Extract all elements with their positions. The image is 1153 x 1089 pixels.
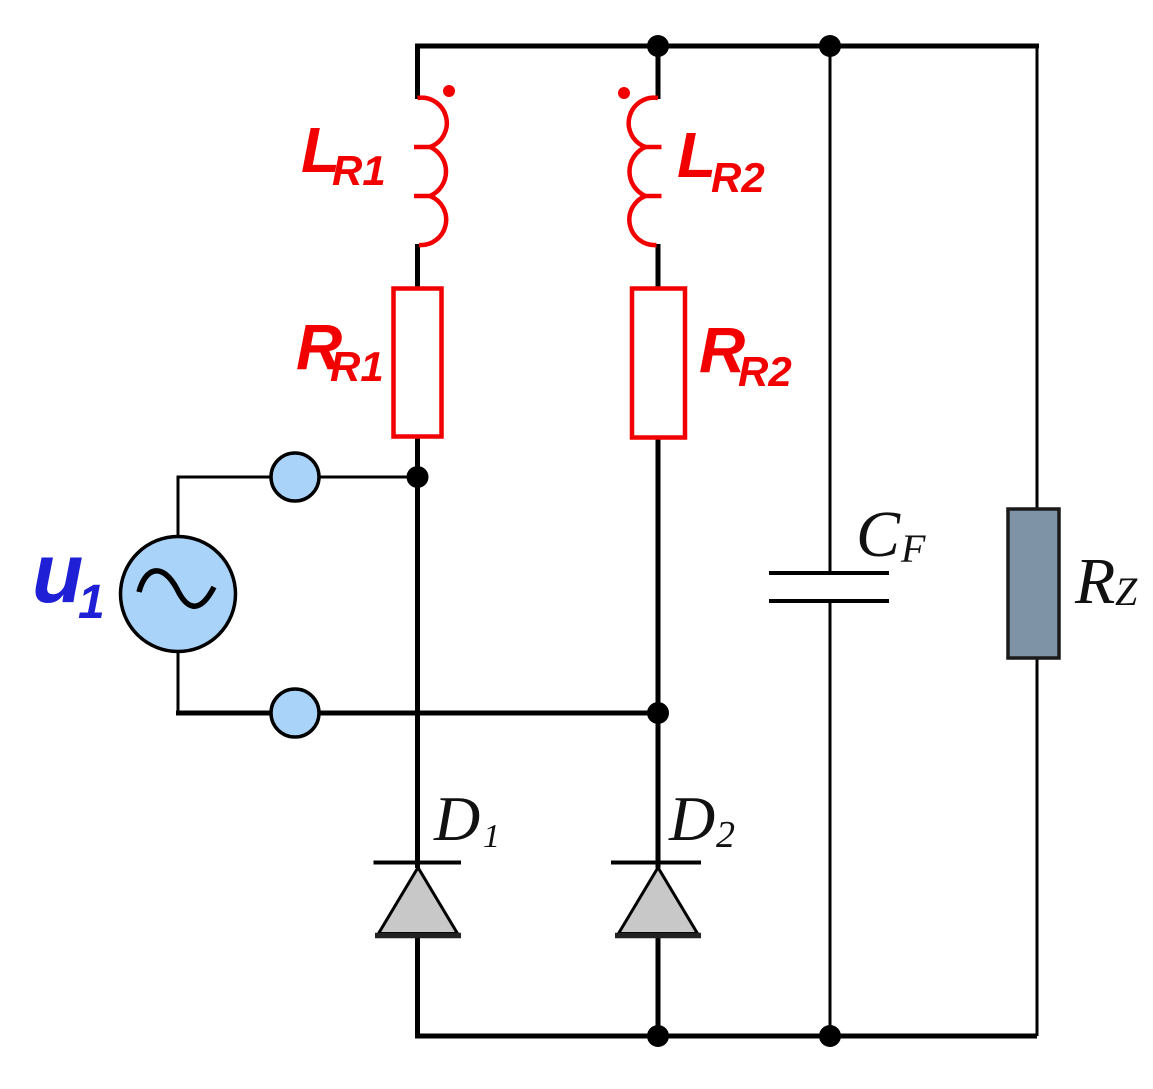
svg-text:1: 1	[78, 576, 105, 629]
svg-text:F: F	[900, 526, 926, 571]
capacitor CF plates	[769, 573, 889, 601]
svg-text:Z: Z	[1115, 569, 1138, 614]
inductor LR1	[414, 98, 447, 245]
svg-text:R1: R1	[332, 147, 386, 194]
svg-text:C: C	[856, 498, 901, 571]
wire bottom rail	[415, 1034, 1037, 1039]
resistor RZ	[1008, 509, 1059, 658]
svg-text:D: D	[668, 783, 715, 854]
diode D2	[611, 861, 701, 865]
node B junction dot	[647, 702, 669, 724]
resistor RR1	[394, 289, 442, 437]
polarity dot LR2	[618, 87, 630, 99]
node A junction dot	[407, 466, 429, 488]
resistor RR2	[632, 289, 685, 438]
svg-text:R: R	[1074, 545, 1115, 618]
wire source bottom	[177, 652, 180, 713]
node bottom junction dot at capacitor	[819, 1025, 841, 1047]
wire branch1 vertical segments	[415, 44, 420, 1038]
source U1	[121, 537, 236, 652]
node top junction dot at branch2	[647, 35, 669, 57]
svg-text:1: 1	[483, 818, 500, 855]
svg-text:R1: R1	[330, 343, 384, 390]
node bottom junction dot at branch2	[647, 1025, 669, 1047]
wire bottom node line	[176, 711, 658, 716]
node top junction dot at capacitor	[819, 35, 841, 57]
wire branch2 vertical segments	[656, 44, 661, 1038]
wire capacitor branch	[829, 46, 832, 1036]
svg-text:u: u	[32, 526, 83, 620]
wire top rail	[415, 44, 1039, 49]
wire source top to node A	[178, 477, 417, 536]
terminal top	[271, 453, 319, 501]
terminal bottom	[271, 689, 319, 737]
svg-text:R2: R2	[738, 348, 792, 395]
inductor LR2	[629, 98, 662, 245]
polarity dot LR1	[443, 85, 455, 97]
svg-text:2: 2	[716, 814, 735, 856]
wire RZ branch	[1036, 44, 1039, 1036]
svg-text:D: D	[433, 783, 480, 854]
diode D1	[374, 861, 462, 865]
svg-text:R2: R2	[711, 154, 765, 201]
